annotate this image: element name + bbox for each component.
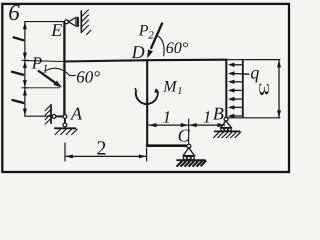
svg-text:60°: 60° xyxy=(76,68,100,87)
svg-text:M: M xyxy=(162,78,178,95)
angle arc at P2 xyxy=(157,35,164,56)
left dimension: ticks xyxy=(21,59,28,61)
support at A: lower pin xyxy=(63,123,67,127)
left dimension label 1 (bottom segment) xyxy=(12,100,23,103)
support at B: rollers xyxy=(221,128,224,131)
support at E: pin circle xyxy=(65,20,69,24)
support at A: vertical link below A xyxy=(64,118,66,123)
support at E: base plate xyxy=(77,17,79,27)
support at C: roller triangle xyxy=(183,148,194,156)
wire: top beam member xyxy=(64,60,227,62)
wire: right column member to B xyxy=(225,60,227,118)
support at B: roller triangle xyxy=(221,121,232,128)
support at C: pin circle xyxy=(187,144,191,148)
support at C: rollers xyxy=(183,156,186,159)
support at C: ground hatching xyxy=(177,161,207,167)
support at C: ground line xyxy=(176,159,205,161)
moment M1 arc xyxy=(136,90,157,104)
left dimension label 1 (middle segment) xyxy=(12,72,23,75)
moment M1 arrow curl xyxy=(156,89,158,96)
support at A: horizontal link xyxy=(56,115,63,117)
svg-text:1: 1 xyxy=(177,86,182,97)
wire: beam thin extension right to dimension line xyxy=(227,59,280,61)
svg-text:A: A xyxy=(70,104,83,124)
support at A: link wall pin xyxy=(52,115,56,119)
svg-text:E: E xyxy=(50,20,62,40)
wire: middle column D-C xyxy=(146,60,148,147)
support at E: wall hatching xyxy=(82,10,92,35)
svg-text:B: B xyxy=(213,103,224,123)
svg-text:2: 2 xyxy=(97,138,107,160)
support at B: ground line xyxy=(214,130,240,132)
svg-text:P: P xyxy=(31,54,42,73)
dimension 1-1: extension to C xyxy=(188,119,190,144)
wire: beam thin extension left of column (angle reference for P1) xyxy=(24,60,64,63)
support at A: ground line xyxy=(54,127,76,129)
wire: bottom member to C xyxy=(146,144,187,147)
support at A: wall hatching xyxy=(45,105,51,125)
svg-text:1: 1 xyxy=(203,107,212,126)
figure border frame xyxy=(2,4,289,172)
svg-text:60°: 60° xyxy=(166,40,189,57)
force P2 vector xyxy=(151,23,163,49)
dimension 1-1 (bottom middle): line xyxy=(149,124,226,126)
force P1 vector xyxy=(38,71,56,84)
left dimension label 1 (top segment) xyxy=(14,37,24,40)
moment M1 left tip flare xyxy=(135,88,136,90)
left dimension arrowheads xyxy=(23,22,27,116)
support at A: pin circle at A xyxy=(63,115,67,119)
svg-text:1: 1 xyxy=(163,107,172,126)
distributed load q: right edge line xyxy=(242,60,244,118)
left dimension: chain line xyxy=(24,22,26,117)
support at B: ground hatching xyxy=(213,132,241,138)
left dimension: bottom extension line xyxy=(24,115,52,117)
left dimension: top extension line xyxy=(24,21,64,23)
distributed load q: arrows xyxy=(233,65,249,116)
angle arc at P1 xyxy=(45,68,76,75)
svg-text:3: 3 xyxy=(256,82,271,96)
support at B: pin circle xyxy=(224,117,228,121)
support at A: wall line xyxy=(50,104,52,124)
dimension 2: line xyxy=(65,155,146,157)
svg-text:D: D xyxy=(131,42,145,62)
left dimension: extension at force level xyxy=(25,87,60,89)
distributed load q: bottom edge + extension xyxy=(227,117,280,119)
svg-text:q: q xyxy=(250,62,259,82)
support at E: triangle against wall xyxy=(68,17,76,26)
svg-text:P: P xyxy=(138,22,149,39)
support at A: ground hatching xyxy=(55,129,78,135)
svg-text:6: 6 xyxy=(8,0,20,25)
dimension 2 (bottom left): extensions xyxy=(64,143,66,162)
wire: left column member E-A xyxy=(63,22,65,115)
support at E: wall line xyxy=(80,10,82,33)
svg-text:2: 2 xyxy=(148,30,154,42)
dimension 3 (right): line xyxy=(278,60,280,117)
